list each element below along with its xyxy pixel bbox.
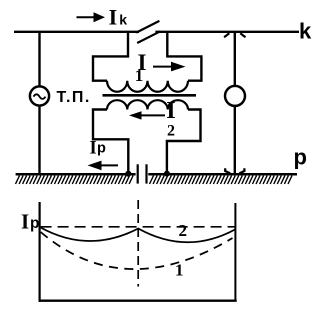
graph label Ip bbox=[21, 209, 39, 233]
svg-text:1: 1 bbox=[135, 66, 144, 85]
transformer winding 1 right lead bbox=[167, 33, 201, 81]
svg-text:k: k bbox=[119, 12, 127, 28]
graph bottom axis bbox=[39, 300, 237, 302]
label Ik bbox=[109, 5, 128, 30]
svg-text:p: p bbox=[30, 215, 39, 232]
transformer winding 2 left lead bbox=[93, 110, 128, 174]
svg-text:p: p bbox=[294, 144, 307, 169]
junction node (winding 2 left to rail) bbox=[125, 171, 131, 177]
arrow I (winding 1) bbox=[153, 62, 186, 72]
load circle bbox=[225, 86, 245, 106]
rail p right segment bbox=[148, 173, 297, 176]
transformer winding 2 coil bbox=[107, 100, 188, 109]
svg-text:k: k bbox=[299, 18, 312, 43]
svg-text:2: 2 bbox=[179, 221, 188, 240]
arrow Ik bbox=[77, 12, 106, 22]
svg-text:I: I bbox=[21, 209, 29, 233]
load branch wire (bottom) bbox=[234, 106, 236, 173]
ground hatching left of rail joint bbox=[16, 176, 134, 184]
transformer winding 2 right lead bbox=[167, 110, 201, 174]
bond tick bottom right bbox=[239, 168, 244, 173]
graph dashed vertical (joint position) bbox=[137, 200, 139, 287]
svg-text:I: I bbox=[109, 5, 118, 30]
transformer winding 1 coil bbox=[107, 81, 188, 92]
graph left axis bbox=[38, 202, 40, 302]
svg-text:I: I bbox=[166, 98, 175, 124]
label Ip bbox=[90, 138, 107, 158]
source T.P. circle bbox=[30, 86, 49, 105]
ground hatching right of rail joint bbox=[150, 176, 293, 184]
load branch wire (top) bbox=[234, 33, 236, 86]
svg-text:I: I bbox=[90, 138, 97, 158]
graph right axis bbox=[234, 203, 236, 301]
wire contact line k left segment bbox=[14, 31, 139, 33]
svg-text:p: p bbox=[97, 141, 106, 157]
svg-text:Т.П.: Т.П. bbox=[57, 89, 91, 106]
source sine symbol bbox=[34, 94, 46, 99]
source T.P. feeder wire (bottom) bbox=[38, 106, 40, 174]
svg-text:1: 1 bbox=[175, 260, 184, 279]
bond tick top right bbox=[240, 33, 245, 37]
transformer core bbox=[103, 94, 197, 97]
insulated joint (contact line) bbox=[136, 21, 160, 43]
insulated joint (rail) bar 1 bbox=[137, 164, 139, 183]
wire contact line k right segment bbox=[155, 31, 299, 33]
arrow I (winding 2) bbox=[129, 111, 165, 119]
bond tick bottom left bbox=[225, 168, 230, 173]
source T.P. feeder wire (top) bbox=[38, 33, 40, 87]
arrow Ip bbox=[88, 161, 119, 171]
graph curve 2 (solid, with booster transformer) bbox=[41, 228, 235, 243]
bond tick top left bbox=[224, 33, 229, 37]
rail p left segment bbox=[16, 173, 136, 176]
insulated joint (rail) bar 2 bbox=[145, 164, 147, 183]
graph dashed level line bbox=[41, 226, 235, 228]
junction node (winding 2 right to rail) bbox=[164, 171, 170, 177]
transformer winding 1 left lead bbox=[93, 33, 128, 81]
svg-text:2: 2 bbox=[167, 122, 175, 139]
graph curve 1 (dashed, without booster) bbox=[41, 232, 233, 269]
